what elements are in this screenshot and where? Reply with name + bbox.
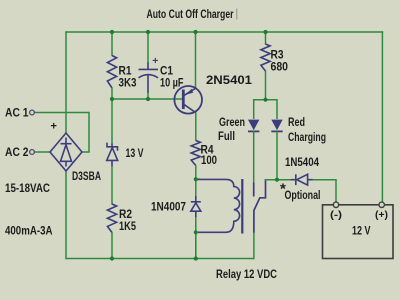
junction node 2 [146, 30, 150, 34]
wire base node row [111, 98, 182, 100]
junction node 4 [263, 30, 267, 34]
wire R1 top lead [111, 31, 113, 56]
svg-text:+: + [152, 55, 158, 67]
battery 12V box [323, 205, 394, 259]
svg-text:Relay 12 VDC: Relay 12 VDC [216, 269, 277, 281]
svg-text:680: 680 [271, 60, 289, 74]
bridge rectifier D3SBA body [50, 133, 82, 171]
relay switch NO contact [253, 183, 255, 197]
wire right rail (+) [381, 31, 383, 202]
svg-text:Optional: Optional [285, 188, 321, 202]
wire 1N4007 bottom lead [195, 217, 197, 259]
wire R2 bottom lead [111, 232, 113, 259]
wire coil bottom to rail [195, 232, 197, 259]
wire C1 top lead [147, 31, 149, 63]
svg-text:Auto Cut Off Charger: Auto Cut Off Charger [147, 7, 234, 21]
svg-text:1N4007: 1N4007 [151, 200, 186, 214]
junction node 6 [146, 97, 150, 101]
svg-text:12 V: 12 V [352, 226, 371, 238]
battery terminal (-) [333, 202, 338, 207]
battery terminal (+) [379, 202, 384, 207]
relay core [241, 179, 243, 234]
diode 1N5404 [291, 174, 314, 185]
wire AC2 to bridge [35, 151, 50, 153]
svg-text:Full: Full [218, 129, 235, 143]
wire switch to bottom rail [253, 232, 255, 259]
wire collector lead [195, 112, 197, 141]
transistor Q1 2N5401 [174, 86, 202, 114]
wire red LED cathode [276, 131, 278, 180]
svg-text:(-): (-) [330, 209, 342, 221]
junction node 10 [194, 230, 198, 234]
wire R3 bottom lead [265, 71, 267, 101]
svg-text:D3SBA: D3SBA [72, 171, 101, 183]
wire emitter from top rail [195, 31, 197, 88]
LED D-green [248, 120, 259, 132]
resistor R1 [107, 56, 116, 89]
LED D-red [271, 120, 282, 132]
junction node 12 [194, 256, 198, 260]
resistor R4 [191, 141, 200, 166]
svg-text:+: + [51, 121, 57, 133]
wire C1 bottom lead [147, 93, 149, 100]
bridge inner diode [61, 138, 72, 167]
junction node 9 [275, 178, 279, 182]
svg-text:13 V: 13 V [126, 146, 144, 160]
wire relay coil top lead [195, 178, 200, 180]
wire left vertical to bridge [65, 31, 67, 133]
resistor R3 [261, 44, 270, 71]
junction node 8 [194, 177, 198, 181]
svg-text:Green: Green [219, 115, 245, 129]
svg-text:Charging: Charging [288, 130, 326, 144]
wire bridge bottom to rail [65, 171, 67, 260]
junction node 5 [110, 97, 114, 101]
relay switch lever [254, 179, 266, 233]
svg-text:10 µF: 10 µF [160, 76, 184, 90]
wire AC1 to bridge [35, 113, 89, 153]
terminal AC2 [30, 150, 35, 155]
svg-text:3K3: 3K3 [119, 76, 137, 90]
wire LED split [254, 100, 277, 119]
svg-text:Red: Red [288, 115, 305, 129]
terminal AC1 [30, 110, 35, 115]
svg-text:400mA-3A: 400mA-3A [5, 225, 53, 237]
junction node 11 [110, 256, 114, 260]
wire diode to battery [313, 180, 337, 203]
svg-text:AC 2: AC 2 [5, 147, 29, 159]
wire zener-R2 link [111, 166, 113, 205]
wire switch row [265, 179, 291, 181]
junction node 3 [193, 30, 197, 34]
wire R4 bottom lead [195, 165, 197, 180]
svg-text:1N5404: 1N5404 [285, 155, 319, 169]
wire bottom rail [65, 258, 254, 260]
wire zener top lead [111, 98, 113, 144]
svg-text:15-18VAC: 15-18VAC [5, 183, 50, 195]
wire top rail [65, 31, 383, 33]
wire R1 bottom lead [111, 88, 113, 100]
junction node 7 [263, 98, 267, 102]
wire green LED cathode [253, 131, 255, 183]
wire 1N4007 top lead [195, 179, 197, 197]
title text cursor [236, 9, 238, 20]
svg-text:(+): (+) [375, 209, 388, 221]
svg-text:100: 100 [201, 153, 217, 167]
relay coil [198, 179, 240, 232]
svg-text:2N5401: 2N5401 [206, 73, 252, 87]
svg-text:1K5: 1K5 [119, 219, 136, 233]
zener diode 13V [107, 143, 118, 167]
svg-text:AC 1: AC 1 [5, 108, 29, 120]
diode 1N4007 [191, 196, 201, 218]
wire R3 top lead [265, 31, 267, 44]
capacitor C1 [139, 63, 159, 94]
junction node 1 [110, 30, 114, 34]
resistor R2 [107, 204, 116, 233]
